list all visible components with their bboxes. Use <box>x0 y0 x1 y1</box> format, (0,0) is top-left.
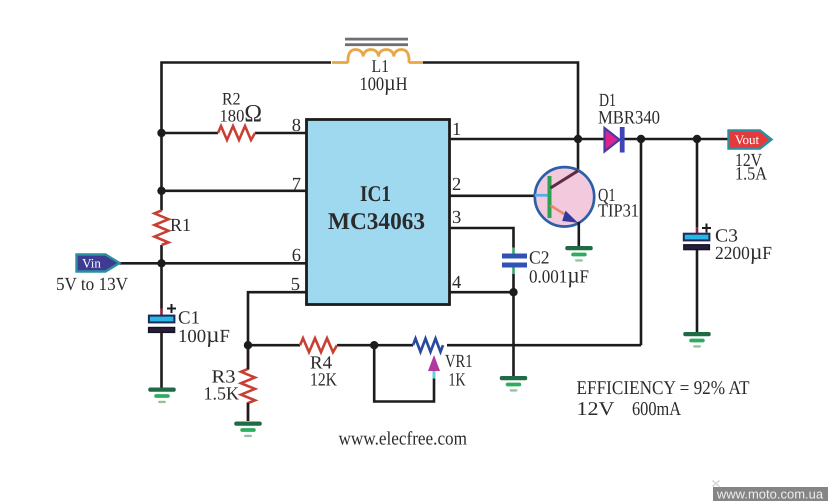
svg-text:www.elecfree.com: www.elecfree.com <box>339 429 468 450</box>
ground under R3 <box>234 422 262 438</box>
svg-text:100µH: 100µH <box>360 70 408 95</box>
svg-text:R1: R1 <box>170 216 191 236</box>
resistor R1 <box>155 211 169 246</box>
wire pin5 <box>248 292 307 345</box>
junction node at pin 8 rail <box>157 129 165 137</box>
junction node pin 4 / C2 ground leg <box>509 288 517 296</box>
wire feedback vertical <box>640 139 643 345</box>
svg-text:180Ω: 180Ω <box>220 101 263 128</box>
wire left rail lower <box>160 245 163 309</box>
wire bottom horizontal <box>248 344 300 347</box>
wire D1 to Vout <box>624 138 728 141</box>
svg-text:2: 2 <box>452 175 461 195</box>
svg-text:VR1: VR1 <box>445 352 473 372</box>
svg-text:Vout: Vout <box>735 132 760 147</box>
svg-text:12V: 12V <box>577 399 615 420</box>
Vin arrow <box>77 255 120 272</box>
C3 positive red lead <box>696 227 699 234</box>
inductor L1 <box>332 38 423 63</box>
svg-text:3: 3 <box>452 208 461 228</box>
C1 positive red lead <box>160 309 163 316</box>
resistor R4 <box>300 338 337 352</box>
junction node output / C3 <box>693 135 701 143</box>
capacitor C2 <box>502 248 527 275</box>
svg-text:www.moto.com.ua: www.moto.com.ua <box>716 487 824 501</box>
svg-text:MC34063: MC34063 <box>328 209 425 235</box>
junction node D1 cathode / feedback <box>637 135 645 143</box>
ground under C2 <box>500 376 528 392</box>
svg-text:1: 1 <box>452 120 461 140</box>
wire C2 to ground <box>512 274 515 376</box>
svg-text:C1: C1 <box>178 309 200 329</box>
svg-text:1.5A: 1.5A <box>735 165 768 185</box>
svg-text:1K: 1K <box>449 371 466 391</box>
resistor R3 <box>241 345 255 421</box>
wire pin8 <box>162 132 219 135</box>
watermark bar <box>713 481 828 501</box>
wire collector junction down to Q1 <box>577 139 580 170</box>
wire VR1 wiper <box>374 345 434 401</box>
wire pin2 to Q1 base <box>450 195 537 198</box>
svg-text:TIP31: TIP31 <box>598 202 639 222</box>
ground under Q1 <box>565 246 593 262</box>
wire Vin to pin6 <box>118 262 307 265</box>
svg-text:5V to 13V: 5V to 13V <box>56 275 129 295</box>
IC1 MC34063 <box>307 120 450 305</box>
junction node R4 / VR1 wiper <box>370 341 378 349</box>
ground under C1 <box>148 388 176 404</box>
svg-text:Vin: Vin <box>82 256 101 271</box>
svg-text:IC1: IC1 <box>360 181 391 206</box>
wire pin3 to C2 <box>450 228 514 248</box>
ground under C3 <box>683 332 711 348</box>
wire top-right from inductor <box>423 63 578 140</box>
junction node at pin 7 rail <box>157 187 165 195</box>
svg-text:4: 4 <box>452 273 461 293</box>
svg-text:7: 7 <box>292 175 301 195</box>
svg-text:EFFICIENCY = 92% AT: EFFICIENCY = 92% AT <box>577 378 750 399</box>
wire C3 branch <box>696 139 699 227</box>
svg-text:8: 8 <box>292 116 301 136</box>
svg-text:C2: C2 <box>529 249 550 269</box>
svg-text:600mA: 600mA <box>632 399 681 420</box>
diode D1 <box>605 127 625 153</box>
wire C1 to ground <box>160 332 163 388</box>
capacitor C1 <box>149 304 176 332</box>
svg-text:6: 6 <box>292 246 301 266</box>
svg-text:1.5K: 1.5K <box>204 385 240 405</box>
wire Q1 emitter to ground <box>577 222 580 246</box>
resistor R2 <box>218 126 255 140</box>
capacitor C3 <box>684 224 711 250</box>
junction node at Vin / pin 6 <box>157 259 165 267</box>
wire top-left rail <box>162 63 332 211</box>
wire pin7 <box>162 190 307 193</box>
transistor Q1 <box>535 167 594 226</box>
svg-text:MBR340: MBR340 <box>598 108 660 129</box>
potentiometer VR1 <box>413 339 443 352</box>
Vout arrow <box>729 131 772 149</box>
junction node pin 5 / R3 / R4 <box>244 341 252 349</box>
svg-text:5: 5 <box>291 275 300 295</box>
svg-text:12K: 12K <box>310 371 338 391</box>
junction node pin 1 / L1 / Q1 collector <box>574 135 582 143</box>
wire pin4 <box>450 291 514 294</box>
wire pin1 to D1 <box>450 138 604 141</box>
